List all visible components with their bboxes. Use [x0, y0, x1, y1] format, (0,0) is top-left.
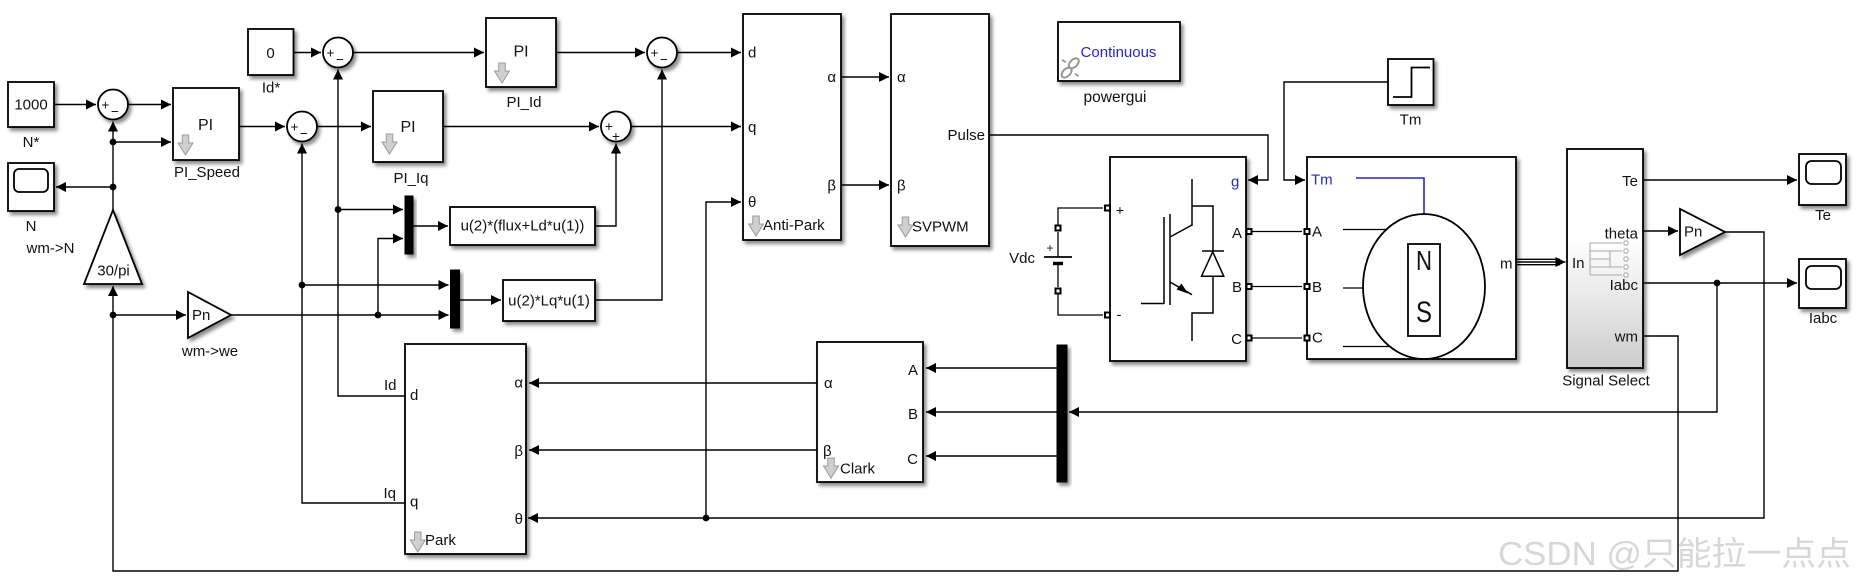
- svg-text:C: C: [907, 451, 918, 468]
- svg-text:Pn: Pn: [1684, 224, 1702, 241]
- svg-text:S: S: [1416, 296, 1432, 329]
- svg-text:θ: θ: [748, 194, 756, 211]
- svg-text:β: β: [827, 178, 836, 195]
- svg-text:Pulse: Pulse: [947, 127, 985, 144]
- svg-text:A: A: [1232, 225, 1242, 242]
- svg-text:−: −: [336, 52, 344, 67]
- svg-text:Te: Te: [1815, 207, 1831, 224]
- svg-text:Continuous: Continuous: [1081, 44, 1157, 61]
- svg-text:q: q: [748, 119, 756, 136]
- svg-text:A: A: [1312, 224, 1322, 241]
- svg-text:SVPWM: SVPWM: [912, 219, 969, 236]
- svg-text:PI: PI: [198, 117, 213, 134]
- svg-text:PI_Speed: PI_Speed: [174, 164, 240, 181]
- svg-text:powergui: powergui: [1084, 89, 1147, 106]
- svg-text:1000: 1000: [14, 97, 47, 114]
- svg-text:CSDN @只能拉一点点: CSDN @只能拉一点点: [1498, 535, 1851, 572]
- svg-text:+: +: [1116, 202, 1124, 218]
- svg-text:θ: θ: [515, 511, 523, 528]
- svg-text:α: α: [897, 69, 906, 86]
- svg-text:β: β: [514, 443, 523, 460]
- svg-text:u(2)*Lq*u(1): u(2)*Lq*u(1): [508, 293, 590, 310]
- svg-text:-: -: [1117, 307, 1122, 324]
- svg-text:Tm: Tm: [1311, 172, 1333, 189]
- svg-text:wm->N: wm->N: [26, 240, 75, 257]
- svg-text:m: m: [1500, 256, 1513, 273]
- svg-text:Id*: Id*: [262, 80, 281, 97]
- svg-text:PI: PI: [513, 44, 528, 61]
- svg-text:Iq: Iq: [384, 485, 397, 502]
- svg-text:Pn: Pn: [192, 307, 210, 324]
- svg-text:+: +: [291, 120, 299, 135]
- svg-text:theta: theta: [1605, 226, 1639, 243]
- svg-text:N: N: [26, 218, 37, 235]
- svg-text:β: β: [823, 443, 832, 460]
- svg-text:α: α: [514, 375, 523, 392]
- svg-text:Iabc: Iabc: [1610, 277, 1639, 294]
- svg-text:PI_Iq: PI_Iq: [393, 170, 428, 187]
- svg-text:wm: wm: [1614, 329, 1638, 346]
- svg-text:+: +: [651, 46, 659, 61]
- svg-text:−: −: [660, 52, 668, 67]
- svg-text:−: −: [111, 104, 119, 119]
- svg-text:30/pi: 30/pi: [97, 263, 130, 280]
- svg-text:C: C: [1231, 331, 1242, 348]
- svg-text:+: +: [612, 129, 620, 144]
- svg-text:q: q: [410, 494, 418, 511]
- svg-text:Tm: Tm: [1400, 112, 1422, 129]
- svg-text:wm->we: wm->we: [181, 343, 238, 360]
- svg-text:Signal Select: Signal Select: [1562, 373, 1650, 390]
- svg-text:+: +: [327, 46, 335, 61]
- svg-text:0: 0: [266, 45, 274, 62]
- svg-text:Anti-Park: Anti-Park: [763, 217, 825, 234]
- svg-text:−: −: [300, 126, 308, 141]
- svg-text:A: A: [908, 362, 918, 379]
- svg-text:+: +: [1046, 241, 1053, 255]
- svg-text:N: N: [1416, 245, 1432, 276]
- svg-text:g: g: [1231, 174, 1239, 191]
- svg-text:PI_Id: PI_Id: [506, 94, 541, 111]
- svg-text:Park: Park: [425, 532, 456, 549]
- svg-text:B: B: [1232, 279, 1242, 296]
- svg-text:N*: N*: [23, 134, 40, 151]
- svg-text:Iabc: Iabc: [1809, 310, 1838, 327]
- svg-text:Id: Id: [384, 377, 397, 394]
- svg-text:PI: PI: [400, 119, 415, 136]
- svg-text:+: +: [102, 98, 110, 113]
- svg-text:Te: Te: [1622, 173, 1638, 190]
- svg-text:Clark: Clark: [840, 461, 876, 478]
- svg-text:α: α: [827, 69, 836, 86]
- svg-text:In: In: [1572, 255, 1585, 272]
- svg-text:d: d: [410, 387, 418, 404]
- svg-text:α: α: [824, 375, 833, 392]
- svg-text:Vdc: Vdc: [1009, 250, 1035, 267]
- svg-text:C: C: [1312, 330, 1323, 347]
- svg-text:B: B: [1312, 279, 1322, 296]
- svg-text:β: β: [897, 178, 906, 195]
- svg-text:B: B: [908, 406, 918, 423]
- svg-text:d: d: [748, 45, 756, 62]
- svg-text:u(2)*(flux+Ld*u(1)): u(2)*(flux+Ld*u(1)): [461, 218, 585, 235]
